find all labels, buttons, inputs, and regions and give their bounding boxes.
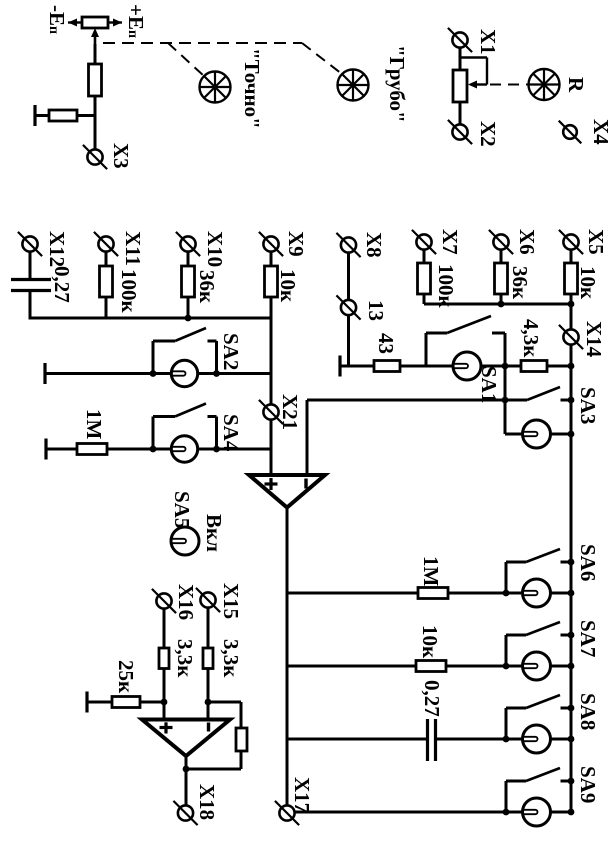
resistor R12 1M: [418, 588, 448, 599]
svg-text:X3: X3: [109, 143, 133, 169]
lamp SA7: [523, 652, 551, 680]
wire lamp right SA2: [198, 372, 217, 375]
svg-text:X21: X21: [278, 394, 302, 430]
wire lamp right SA8: [550, 738, 571, 741]
wire R13 to SA7: [446, 665, 506, 668]
wire R16 to noninv U2: [140, 701, 164, 704]
svg-text:SA2: SA2: [219, 333, 243, 370]
svg-text:X14: X14: [582, 321, 606, 358]
junction blade bus SA9: [568, 778, 575, 785]
wire lamp left SA2: [153, 372, 172, 375]
svg-text:X12: X12: [45, 231, 69, 267]
svg-text:25к: 25к: [114, 660, 138, 694]
svg-text:X8: X8: [362, 232, 386, 258]
resistor R8 100k: [418, 263, 431, 294]
svg-text:X9: X9: [284, 231, 308, 257]
wire lamp left SA4: [153, 448, 172, 451]
junction right SA4: [213, 446, 220, 453]
svg-text:100к: 100к: [117, 269, 141, 314]
junction X10 bus: [185, 315, 192, 322]
wire R1 to node A: [94, 96, 97, 150]
wire R5 to left bus: [270, 297, 273, 318]
ground terminal T2: [338, 356, 341, 377]
lamp SA4: [171, 436, 197, 462]
wire output to R12: [287, 592, 418, 595]
wire R10 to bus: [570, 294, 573, 304]
wiper link of RP2: [460, 56, 487, 58]
svg-text:Вкл: Вкл: [202, 514, 226, 552]
junction X6 bus: [498, 301, 505, 308]
wire X12 to C1: [29, 251, 32, 279]
lamp R: [529, 69, 560, 100]
svg-text:43: 43: [374, 333, 398, 354]
left bus wire: [29, 317, 272, 320]
connector X8: [341, 237, 356, 252]
resistor R5 10k: [265, 266, 278, 297]
svg-text:10к: 10к: [576, 266, 600, 300]
junction lamp bus SA6: [568, 590, 575, 597]
resistor R2: [49, 110, 77, 121]
capacitor C2: [426, 719, 429, 761]
svg-text:"Грубо": "Грубо": [385, 45, 409, 123]
wire R11 to SA4: [107, 448, 153, 451]
connector X18: [178, 805, 193, 820]
wire R2 to node A: [77, 114, 95, 117]
op-amp U1: [249, 475, 325, 508]
wire T2 to R6: [340, 365, 374, 368]
svg-text:0,27: 0,27: [50, 266, 74, 303]
wire X10 to R4: [187, 251, 190, 266]
junction SA3 blade bus: [568, 397, 575, 404]
svg-text:3,3к: 3,3к: [173, 639, 197, 678]
junction inv line: [502, 397, 509, 404]
resistor R13 10k: [416, 661, 446, 672]
svg-text:X16: X16: [174, 584, 198, 620]
svg-text:X15: X15: [219, 583, 243, 619]
wire R7 to right bus: [547, 365, 571, 368]
svg-text:13: 13: [364, 300, 388, 321]
lamp SA9: [523, 798, 551, 826]
svg-text:X6: X6: [515, 229, 539, 255]
wire RP2 to X2: [459, 102, 462, 125]
svg-text:3,3к: 3,3к: [219, 639, 243, 678]
wire R12 to SA6: [448, 592, 506, 595]
junction node B: [502, 363, 509, 370]
junction lamp bus SA8: [568, 736, 575, 743]
resistor R4 36k: [182, 266, 195, 297]
svg-text:X1: X1: [476, 29, 500, 55]
wire SA3 lamp to bus: [550, 433, 571, 436]
svg-text:36к: 36к: [508, 266, 532, 300]
wire lamp right SA4: [198, 448, 217, 451]
lamp "Grubo": [338, 70, 369, 101]
wire R15 to inv U2: [207, 669, 210, 721]
connector X5: [563, 234, 578, 249]
wire wiper to R1: [94, 44, 97, 64]
wire X6 to R9: [500, 249, 503, 263]
connector X11: [98, 236, 113, 251]
switch blade SA6: [505, 562, 508, 593]
op-amp U2: [142, 720, 230, 757]
ground terminal T3: [85, 692, 88, 713]
wire lamp right SA7: [550, 665, 571, 668]
ground terminal T1: [33, 105, 36, 126]
wire T to R11: [46, 448, 77, 451]
resistor R10 10k: [565, 263, 578, 294]
resistor R3 100k: [100, 266, 113, 297]
wire R4 to left bus: [187, 297, 190, 318]
wire lamp right SA9: [550, 811, 571, 814]
wire to SA3 lamp: [505, 433, 523, 436]
lamp SA8: [523, 725, 551, 753]
switch SA1 blade: [425, 333, 428, 366]
connector X12: [22, 236, 37, 251]
ground wire SA2: [45, 372, 153, 375]
switch SA3 blade: [505, 399, 527, 402]
svg-text:4,3к: 4,3к: [519, 319, 543, 358]
resistor R14 3,3k: [159, 648, 169, 669]
wire X16 to R14: [163, 608, 166, 648]
resistor R11 1M: [77, 444, 107, 455]
wire X15 to R15: [207, 607, 210, 648]
dashed wire to lamps: [103, 42, 302, 44]
ground terminal SA4: [44, 439, 47, 460]
junction lamp bus SA9: [568, 809, 575, 816]
wire X8 to 13: [347, 252, 350, 300]
junction SA3 lamp bus: [568, 431, 575, 438]
connector 13: [341, 300, 356, 315]
lamp SA1: [453, 352, 481, 380]
svg-text:SA8: SA8: [576, 693, 600, 730]
svg-text:0,27: 0,27: [420, 680, 444, 717]
svg-text:X4: X4: [589, 119, 611, 145]
output wire U2: [185, 755, 188, 806]
switch blade SA8: [505, 708, 508, 739]
wire SA4 to noninv line: [217, 448, 272, 451]
noninv input wire X21 column: [270, 318, 273, 476]
junction blade bus SA8: [568, 705, 575, 712]
lamp SA3: [523, 420, 551, 448]
connector X14: [563, 329, 578, 344]
svg-text:X5: X5: [584, 229, 608, 255]
connector X6: [493, 234, 508, 249]
junction lamp left SA8: [503, 736, 510, 743]
svg-text:36к: 36к: [195, 270, 219, 304]
arrow to -Ep: [68, 21, 82, 23]
wire T1 to R2: [35, 114, 49, 117]
svg-text:100к: 100к: [434, 264, 458, 309]
capacitor C1: [11, 278, 51, 281]
resistor R15 3,3k: [203, 648, 213, 669]
lamp SA5: [171, 527, 199, 555]
wire lamp left SA8: [506, 738, 523, 741]
lamp SA6: [523, 579, 551, 607]
svg-text:SA7: SA7: [576, 620, 600, 657]
junction blade bus SA6: [568, 559, 575, 566]
connector X15: [200, 592, 215, 607]
minus sign U1: [304, 479, 307, 489]
dashed wire RP2 to lamp R: [490, 84, 528, 86]
svg-text:1М: 1М: [419, 556, 443, 587]
junction lamp left SA9: [503, 809, 510, 816]
junction lamp left SA6: [503, 590, 510, 597]
connector X10: [180, 236, 195, 251]
plus sign U1: [265, 482, 278, 485]
output wire U1: [286, 507, 289, 806]
arrow to +Ep: [108, 21, 122, 23]
svg-text:1М: 1М: [82, 409, 106, 440]
junction blade bus SA7: [568, 632, 575, 639]
switch blade SA4: [152, 417, 155, 450]
switch blade SA2: [152, 341, 155, 374]
connector X1: [452, 32, 467, 47]
inv input wire op-amp U1: [306, 400, 309, 476]
junction right SA2: [213, 370, 220, 377]
resistor R6 43: [374, 361, 400, 372]
wire R6 to SA1 lamp: [400, 365, 454, 368]
wire X11 to R3: [105, 251, 108, 266]
connector X4: [563, 125, 577, 139]
svg-text:SA4: SA4: [219, 414, 243, 452]
junction noninv U2: [161, 699, 168, 706]
svg-text:SA9: SA9: [576, 766, 600, 803]
junction inv U2: [205, 699, 212, 706]
resistor R7 4,3k: [521, 361, 547, 372]
wire R9 to top bus: [500, 294, 503, 304]
svg-text:X2: X2: [476, 121, 500, 147]
wire X5 to R10: [570, 249, 573, 263]
feedback wire U2: [208, 701, 241, 704]
resistor R9 36k: [495, 263, 508, 294]
wire lamp left SA9: [506, 811, 523, 814]
svg-text:SA1: SA1: [477, 366, 501, 403]
wire R14 to noninv U2: [163, 669, 166, 721]
connector X17: [279, 805, 294, 820]
wire R3 to left bus: [105, 297, 108, 318]
wire X17 to SA9: [295, 811, 507, 814]
connector X7: [416, 234, 431, 249]
resistor R16 25k: [112, 697, 140, 708]
wire output to C2: [287, 738, 427, 741]
junction lamp bus SA7: [568, 663, 575, 670]
wire C1 to left bus: [29, 290, 32, 320]
connector X16: [156, 593, 171, 608]
lamp "Tochno": [200, 72, 231, 103]
wire lamp left SA7: [506, 665, 523, 668]
svg-text:SA6: SA6: [576, 544, 600, 581]
wire node B to R7: [505, 365, 521, 368]
dashed branch to Grubo lamp: [302, 43, 342, 74]
svg-text:X11: X11: [121, 231, 145, 266]
svg-text:10к: 10к: [418, 625, 442, 659]
svg-text:10к: 10к: [276, 269, 300, 303]
junction left SA2: [150, 370, 157, 377]
svg-text:X7: X7: [438, 229, 462, 255]
wire T3 to R16: [87, 701, 112, 704]
svg-text:X10: X10: [203, 231, 227, 267]
switch blade SA7: [505, 635, 508, 666]
dashed branch to Tochno lamp: [168, 43, 204, 76]
potentiometer RP2 body: [453, 70, 467, 102]
wire X1 to RP2: [459, 47, 462, 70]
junction lamp left SA7: [503, 663, 510, 670]
wire C2 to SA8: [436, 738, 507, 741]
wire 13 to row: [347, 315, 350, 366]
potentiometer RP1 body: [82, 17, 108, 28]
svg-text:X17: X17: [290, 777, 314, 813]
right bus wire: [570, 304, 573, 812]
svg-text:"Точно": "Точно": [240, 48, 264, 129]
wire output to R13: [287, 665, 416, 668]
wire R8 to top bus: [423, 294, 426, 304]
top bus wire: [424, 303, 571, 306]
switch blade SA9: [505, 781, 508, 812]
svg-text:SA5: SA5: [170, 491, 194, 528]
junction X5 bus: [568, 301, 575, 308]
connector X2: [452, 124, 467, 139]
svg-text:SA3: SA3: [576, 387, 600, 424]
svg-text:R: R: [564, 77, 588, 93]
plus sign U2: [160, 726, 173, 729]
connector X21: [263, 404, 278, 419]
wiper arrow of RP1: [94, 34, 97, 49]
ground terminal SA2: [43, 363, 46, 384]
wire SA2 to noninv line: [217, 372, 272, 375]
resistor R1: [89, 64, 102, 96]
junction R7 bus: [568, 363, 575, 370]
wire X7 to R8: [423, 249, 426, 263]
svg-text:X18: X18: [195, 784, 219, 820]
minus sign U2: [207, 723, 210, 732]
resistor R17 feedback: [236, 728, 247, 751]
wire SA1 lamp to node B: [481, 365, 506, 368]
wire X9 to R5: [270, 251, 273, 266]
junction output U2: [183, 766, 190, 773]
junction left SA4: [150, 446, 157, 453]
wire lamp left SA6: [506, 592, 523, 595]
connector X9: [263, 236, 278, 251]
lamp SA2: [171, 360, 197, 386]
wire lamp right SA6: [550, 592, 571, 595]
wire node B to SA3: [504, 366, 507, 434]
connector X3: [87, 149, 102, 164]
